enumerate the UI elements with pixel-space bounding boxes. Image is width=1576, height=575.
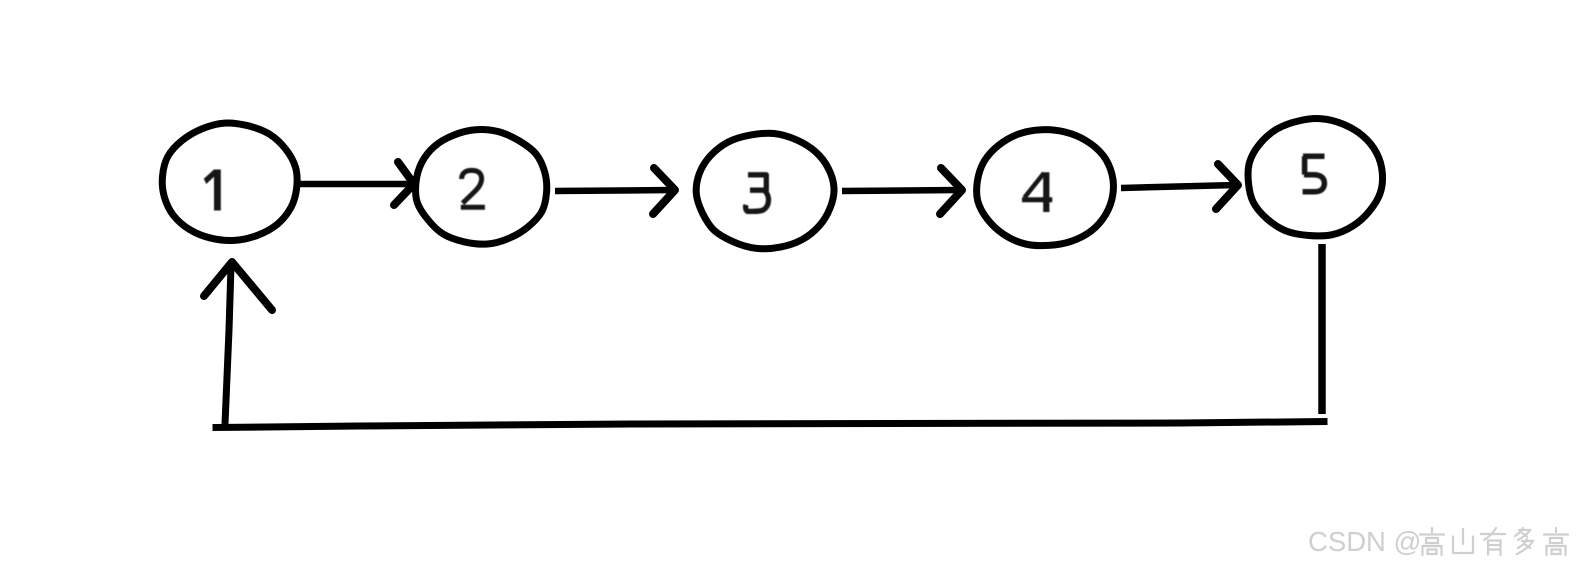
svg-text:CSDN @: CSDN @ [1308,526,1421,557]
